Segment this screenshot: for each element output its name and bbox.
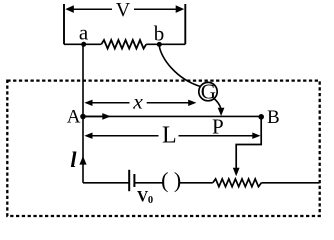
- wire: top branch right segment: [146, 43, 185, 45]
- resistor between a and b: [101, 40, 146, 49]
- wire: curved lead from b to galvanometer: [159, 46, 200, 87]
- svg-text:A: A: [67, 107, 81, 128]
- rheostat: [213, 179, 262, 187]
- svg-text:0: 0: [148, 195, 153, 206]
- svg-text:b: b: [154, 21, 165, 45]
- node b: [157, 42, 162, 47]
- current arrow on wire A-B: [84, 115, 104, 117]
- wire: left end of top branch turning up to V bracket: [63, 4, 65, 44]
- svg-text:a: a: [79, 20, 89, 44]
- node A: [80, 114, 86, 120]
- jockey arrow from G down to P: [214, 98, 221, 108]
- svg-text:( ): ( ): [161, 167, 181, 192]
- current arrow l on left vertical wire: [79, 156, 86, 165]
- measurement arrow L: [84, 133, 92, 139]
- wire: from B down and across to rheostat slider arrow: [236, 119, 261, 168]
- svg-text:B: B: [267, 107, 280, 128]
- svg-text:L: L: [162, 123, 177, 149]
- wire: key to rheostat: [179, 182, 213, 184]
- dashed enclosure box: [7, 81, 319, 216]
- potentiometer wire A to B: [83, 115, 261, 117]
- node a: [81, 42, 86, 47]
- battery V0: short plate: [133, 174, 135, 187]
- measurement arrow V (double-headed span): [70, 8, 179, 10]
- svg-text:l: l: [70, 147, 77, 172]
- wire: top branch left segment: [64, 43, 101, 45]
- svg-text:V: V: [116, 0, 131, 21]
- wire: battery to key: [134, 182, 163, 184]
- node B: [258, 114, 264, 120]
- wire: node a down to node A: [82, 44, 84, 116]
- measurement arrow x: [84, 100, 92, 106]
- battery V0: long plate: [128, 170, 130, 191]
- svg-text:x: x: [132, 90, 143, 114]
- wire: rheostat right end to box edge: [261, 182, 319, 184]
- svg-text:G: G: [201, 79, 216, 103]
- wire: bottom branch from left vertical to battery: [83, 182, 129, 184]
- wire: node A down to bottom branch: [82, 116, 84, 182]
- galvanometer G: [199, 82, 217, 100]
- wire: right end of top branch turning up to V bracket: [184, 4, 186, 44]
